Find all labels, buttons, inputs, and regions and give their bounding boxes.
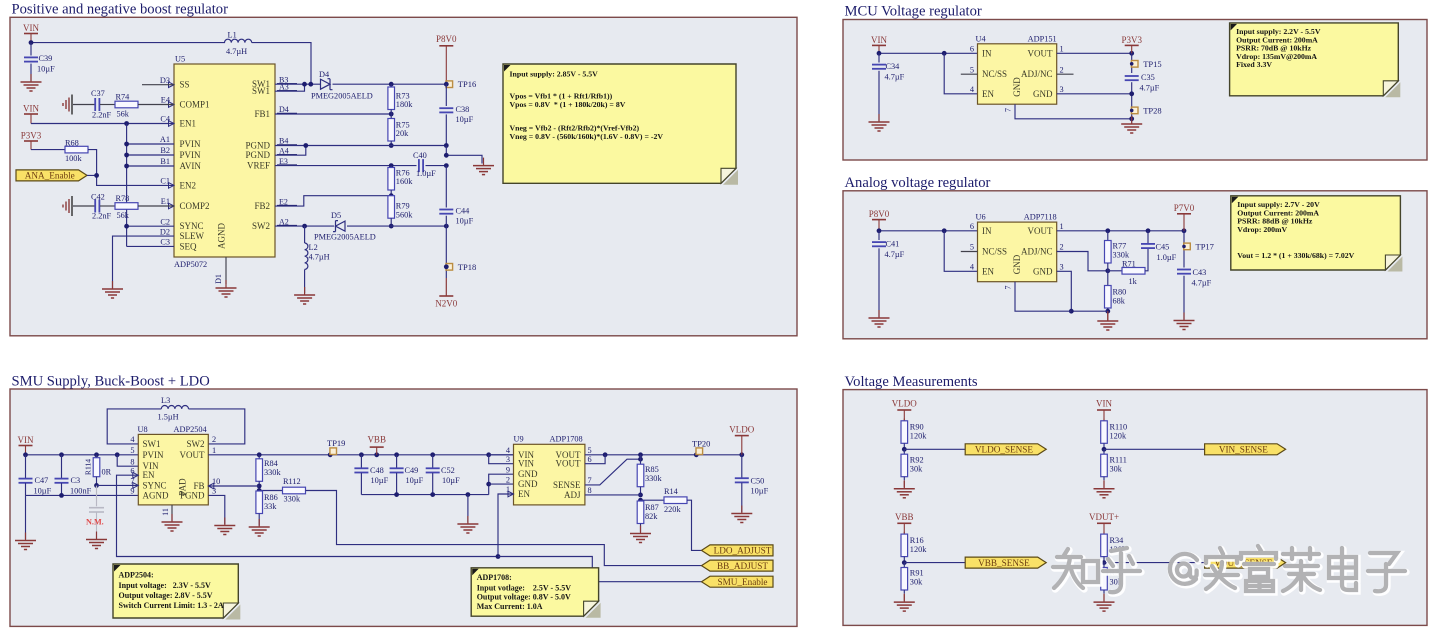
- svg-text:R92: R92: [910, 455, 924, 464]
- net port VBB_SENSE: [965, 557, 1046, 568]
- power port VIN (top-left): [24, 33, 38, 35]
- junction: [444, 163, 449, 168]
- svg-text:R74: R74: [116, 93, 131, 102]
- junction: [29, 40, 34, 45]
- test point TP16: [446, 81, 453, 88]
- wire FB2 E2: [275, 196, 391, 206]
- svg-text:Vpos = 0.8V * (1 + 180k/20k): Vpos = 0.8V * (1 + 180k/20k) = 8V: [510, 100, 626, 109]
- svg-text:10µF: 10µF: [442, 476, 460, 485]
- svg-text:C41: C41: [886, 240, 900, 249]
- ground (R91): [903, 594, 905, 602]
- svg-text:Positive and negative boost re: Positive and negative boost regulator: [12, 2, 229, 18]
- junction: [389, 163, 394, 168]
- wire PGND A4 riser: [275, 146, 306, 156]
- svg-text:VIN: VIN: [23, 23, 39, 33]
- pin AGND D1: [225, 257, 227, 284]
- svg-text:120k: 120k: [910, 432, 927, 441]
- svg-text:33k: 33k: [264, 502, 277, 511]
- svg-text:Max Current: 1.0A: Max Current: 1.0A: [477, 602, 543, 611]
- wire bus to AVIN B1: [127, 165, 174, 167]
- svg-text:330k: 330k: [284, 495, 301, 504]
- pin stub NC/SS (U6): [961, 251, 978, 253]
- svg-text:R87: R87: [645, 503, 659, 512]
- svg-text:NC/SS: NC/SS: [982, 247, 1007, 257]
- svg-text:Analog voltage regulator: Analog voltage regulator: [845, 175, 991, 191]
- watermark: Zhihu @Anfulai Electronics: [1053, 546, 1406, 593]
- svg-text:ADJ/NC: ADJ/NC: [1021, 247, 1053, 257]
- inductor L1 4.7uH: [225, 39, 252, 42]
- svg-text:30k: 30k: [910, 578, 923, 587]
- svg-text:4.7µH: 4.7µH: [226, 47, 247, 56]
- capacitor C42 2.2nF: [94, 200, 96, 213]
- IC U4 ADP151: [978, 44, 1057, 104]
- svg-text:U9: U9: [514, 435, 524, 444]
- ground (PAD): [171, 514, 173, 522]
- wire SYNC from R114: [97, 484, 139, 486]
- svg-text:SW1: SW1: [143, 439, 161, 449]
- wire R75 to PGND rail: [390, 141, 392, 146]
- ground (sideways, COMP1 RC): [63, 98, 69, 112]
- junction: [374, 452, 379, 457]
- capacitor C52 10uF: [432, 455, 434, 468]
- resistor R71 1k: [1108, 270, 1122, 272]
- svg-text:SMU Supply, Buck-Boost + LDO: SMU Supply, Buck-Boost + LDO: [12, 373, 210, 389]
- wire AGND rail: [26, 494, 139, 496]
- resistor R34 120k: [1103, 532, 1105, 534]
- svg-text:Vout = 1.2 * (1 + 330k/68k) =: Vout = 1.2 * (1 + 330k/68k) = 7.02V: [1237, 251, 1354, 260]
- svg-text:8: 8: [130, 457, 134, 466]
- ground (C41): [878, 310, 880, 318]
- svg-text:Input supply: 2.85V - 5.5V: Input supply: 2.85V - 5.5V: [510, 70, 599, 79]
- svg-text:56k: 56k: [117, 211, 130, 220]
- svg-text:TP17: TP17: [1196, 241, 1214, 251]
- note: boost regulator formulas: [723, 170, 738, 185]
- wire bus to SYNC C2: [127, 225, 174, 227]
- resistor R78 56k: [115, 203, 138, 210]
- junction: [444, 153, 449, 158]
- svg-text:U8: U8: [138, 425, 148, 434]
- junction: [902, 560, 907, 565]
- svg-text:1.5µH: 1.5µH: [158, 413, 179, 422]
- svg-text:R112: R112: [283, 477, 301, 486]
- svg-text:7: 7: [588, 476, 592, 485]
- net port SMU_Enable: [702, 576, 774, 587]
- junction: [902, 447, 907, 452]
- ground (MCU output): [1131, 116, 1133, 124]
- pin stub ADJ/NC: [1057, 73, 1074, 75]
- svg-text:ANA_Enable: ANA_Enable: [25, 171, 75, 181]
- junction: [389, 112, 394, 117]
- svg-text:R85: R85: [645, 465, 659, 474]
- resistor R68 100k: [65, 146, 88, 153]
- svg-text:ADP151: ADP151: [1028, 34, 1057, 43]
- svg-text:82k: 82k: [645, 512, 658, 521]
- junction: [389, 193, 394, 198]
- junction: [124, 164, 129, 169]
- svg-text:10µF: 10µF: [34, 487, 52, 496]
- wire GND3 to rail: [1057, 93, 1132, 95]
- junction: [444, 224, 449, 229]
- svg-text:SW1: SW1: [252, 86, 270, 96]
- wire GND pin2 branch: [489, 483, 514, 485]
- wire VIN to EN1 and PVIN bus: [31, 123, 174, 125]
- svg-text:SYNC: SYNC: [143, 480, 167, 490]
- svg-text:R80: R80: [1113, 288, 1127, 297]
- junction: [942, 51, 947, 56]
- svg-text:P7V0: P7V0: [1174, 203, 1195, 213]
- svg-text:R90: R90: [910, 423, 924, 432]
- svg-text:C38: C38: [456, 105, 470, 114]
- wire R68 to ANA_Enable node: [88, 150, 97, 176]
- pin stub NC/SS: [961, 73, 978, 75]
- svg-text:D4: D4: [319, 70, 330, 79]
- power port VLDO: [897, 409, 911, 411]
- svg-text:L2: L2: [309, 243, 318, 252]
- ground (U5 AGND): [225, 280, 227, 288]
- junction: [257, 452, 262, 457]
- note: ADP7118 specs: [1387, 257, 1402, 272]
- svg-text:VLDO: VLDO: [729, 425, 754, 435]
- junction: [1129, 91, 1134, 96]
- wire VOUT rail (VBB): [208, 454, 513, 456]
- net port VDUT_SENSE: [1205, 557, 1286, 568]
- junction: [1130, 62, 1134, 66]
- svg-text:SMU_Enable: SMU_Enable: [717, 577, 767, 587]
- wire bus vertical: [126, 124, 128, 247]
- ground (N.M. cap): [96, 532, 98, 540]
- svg-text:330k: 330k: [645, 474, 662, 483]
- svg-text:20k: 20k: [396, 129, 409, 138]
- svg-text:100k: 100k: [65, 154, 82, 163]
- wire C42 to R78: [100, 205, 115, 207]
- svg-text:C49: C49: [405, 466, 419, 475]
- junction: [1182, 245, 1186, 249]
- svg-text:C40: C40: [413, 151, 427, 160]
- IC U5 ADP5072: [174, 64, 275, 257]
- svg-text:VBB: VBB: [367, 435, 386, 445]
- wire to VLDO_SENSE: [904, 448, 965, 450]
- wire bus to SEQ C3: [127, 245, 174, 247]
- svg-text:5: 5: [970, 243, 974, 252]
- junction: [430, 492, 435, 497]
- junction: [942, 228, 947, 233]
- wire R76 to FB2 node: [390, 190, 392, 196]
- svg-text:AGND: AGND: [143, 490, 169, 500]
- ground (R87): [640, 526, 642, 534]
- junction: [1069, 309, 1074, 314]
- capacitor C38 10uF: [445, 84, 447, 106]
- ground (R92): [903, 481, 905, 489]
- svg-text:100nF: 100nF: [70, 487, 92, 496]
- resistor R74 56k: [115, 101, 138, 108]
- svg-text:PGND: PGND: [245, 150, 270, 160]
- svg-text:4.7µF: 4.7µF: [1192, 279, 1212, 288]
- junction: [1182, 228, 1187, 233]
- svg-text:SW2: SW2: [252, 221, 270, 231]
- svg-text:VIN: VIN: [23, 104, 39, 114]
- svg-text:R91: R91: [910, 569, 924, 578]
- svg-text:10µF: 10µF: [406, 476, 424, 485]
- junction: [694, 452, 699, 457]
- svg-text:Output voltage: 0.8V - 5.0V: Output voltage: 0.8V - 5.0V: [477, 593, 571, 602]
- svg-text:PMEG2005AELD: PMEG2005AELD: [314, 233, 376, 242]
- svg-text:2: 2: [1060, 243, 1064, 252]
- wire EN(U8) to SMU_Enable net: [117, 475, 499, 556]
- wire VOUT rail to P7V0: [1057, 230, 1184, 232]
- svg-text:SYNC: SYNC: [180, 221, 204, 231]
- capacitor C41 4.7uF: [878, 231, 880, 240]
- svg-text:U5: U5: [175, 55, 185, 64]
- svg-text:A1: A1: [160, 135, 170, 144]
- svg-text:SENSE: SENSE: [553, 480, 581, 490]
- svg-text:ADP7118: ADP7118: [1024, 213, 1057, 222]
- capacitor C48 10uF: [360, 455, 362, 468]
- svg-text:3: 3: [1060, 263, 1064, 272]
- power port VBB: [897, 522, 911, 524]
- net port BB_ADJUST: [702, 560, 774, 571]
- wire ADJ pin: [585, 494, 641, 496]
- svg-text:R71: R71: [1122, 260, 1136, 269]
- junction: [124, 153, 129, 158]
- power port VIN (SMU): [19, 445, 33, 447]
- resistor R87 82k: [640, 499, 642, 502]
- svg-text:D1: D1: [214, 274, 223, 284]
- junction: [444, 264, 449, 269]
- svg-text:1: 1: [1060, 45, 1064, 54]
- wire PGND to ground: [208, 495, 225, 524]
- wire SLEW to ground: [113, 236, 175, 288]
- svg-text:180k: 180k: [396, 100, 413, 109]
- resistor R84 330k: [258, 455, 260, 459]
- svg-text:GND: GND: [1033, 89, 1053, 99]
- junction: [877, 51, 882, 56]
- wire VIN to L1: [31, 42, 225, 44]
- note: ADP151 specs: [1385, 82, 1400, 97]
- svg-text:PAD: PAD: [178, 478, 188, 496]
- wire earth to C37: [73, 104, 95, 106]
- svg-text:VOUT: VOUT: [180, 450, 205, 460]
- inductor L2 4.7uH: [304, 226, 306, 243]
- ground (U6 divider): [1107, 311, 1109, 321]
- svg-text:U4: U4: [976, 34, 987, 43]
- resistor R75 20k: [388, 119, 395, 142]
- svg-text:2.2nF: 2.2nF: [92, 212, 112, 221]
- svg-text:L1: L1: [228, 31, 237, 40]
- svg-text:30k: 30k: [910, 464, 923, 473]
- svg-text:GND: GND: [518, 479, 538, 489]
- junction: [394, 492, 399, 497]
- svg-text:VBB_SENSE: VBB_SENSE: [978, 558, 1030, 568]
- junction: [444, 143, 449, 148]
- junction: [638, 457, 643, 462]
- wire C47 to ground: [25, 495, 27, 539]
- wire VIN pins U9: [489, 454, 514, 456]
- svg-text:PVIN: PVIN: [180, 150, 202, 160]
- power port P8V0: [439, 45, 453, 47]
- power port VIN: [1097, 409, 1111, 411]
- svg-text:EN1: EN1: [180, 119, 197, 129]
- wire EN branch (U6): [944, 231, 977, 271]
- IC U9 ADP1708: [514, 444, 585, 505]
- svg-text:120k: 120k: [910, 545, 927, 554]
- svg-text:10µF: 10µF: [456, 115, 474, 124]
- svg-text:R114: R114: [84, 459, 93, 475]
- power port N2V0 (negative rail): [439, 295, 453, 297]
- svg-text:1: 1: [1060, 222, 1064, 231]
- wire VIN pin3 branch: [489, 455, 514, 464]
- svg-text:Input voltage: 2.3V - 5.5V: Input voltage: 2.3V - 5.5V: [119, 581, 212, 590]
- junction: [638, 498, 643, 503]
- wire R74 to COMP1: [138, 104, 174, 106]
- junction: [124, 142, 129, 147]
- svg-text:10µF: 10µF: [751, 487, 769, 496]
- wire GND7 bottom pin (U6): [1015, 282, 1071, 312]
- wire D4 to P8V0 node: [333, 83, 447, 85]
- wire C40 to node: [426, 165, 447, 167]
- junction: [496, 554, 501, 559]
- wire PGND to earth ground: [446, 146, 482, 164]
- svg-text:SW2: SW2: [187, 439, 205, 449]
- svg-text:COMP2: COMP2: [180, 201, 210, 211]
- IC U6 ADP7118: [978, 222, 1057, 282]
- junction: [359, 452, 364, 457]
- svg-text:VIN_SENSE: VIN_SENSE: [1219, 445, 1268, 455]
- junction: [739, 452, 744, 457]
- svg-text:Input votlage: 2.5V - 5.5V: Input votlage: 2.5V - 5.5V: [477, 583, 572, 592]
- ground (C50): [741, 506, 743, 514]
- svg-text:9: 9: [506, 465, 510, 474]
- pin stub SS/D3: [142, 84, 174, 86]
- wire VIN pin 8 branch: [117, 455, 138, 466]
- svg-text:3: 3: [506, 455, 510, 464]
- svg-text:MCU Voltage regulator: MCU Voltage regulator: [845, 4, 982, 20]
- svg-text:FB1: FB1: [254, 109, 270, 119]
- junction: [94, 483, 99, 488]
- resistor R76 160k: [390, 166, 392, 168]
- junction: [1105, 228, 1110, 233]
- svg-text:EN: EN: [982, 266, 994, 276]
- junction: [59, 493, 64, 498]
- wire GND7 bottom pin: [1015, 104, 1132, 119]
- ground (C43): [1183, 313, 1185, 321]
- wire VOUT to P3V3: [1057, 52, 1132, 54]
- wire P7V0 vertical: [1183, 231, 1185, 268]
- svg-text:PVIN: PVIN: [143, 450, 165, 460]
- resistor R111 30k: [1103, 449, 1105, 454]
- resistor R14 220k: [641, 499, 665, 501]
- svg-text:N2V0: N2V0: [435, 299, 457, 309]
- svg-text:TP15: TP15: [1143, 59, 1161, 69]
- panel: Voltage Measurements: [843, 390, 1427, 626]
- wire rail to ground: [467, 495, 469, 523]
- svg-text:10µF: 10µF: [37, 65, 55, 74]
- resistor R91 30k: [903, 563, 905, 568]
- svg-text:11: 11: [161, 508, 170, 516]
- test point TP20: [696, 448, 703, 455]
- svg-text:PGND: PGND: [245, 141, 270, 151]
- wire EN branch: [944, 53, 977, 94]
- wire R79 to SW2 rail: [390, 218, 392, 226]
- ground (C34): [878, 114, 880, 122]
- wire to VDUT_SENSE: [1104, 562, 1205, 564]
- svg-text:3: 3: [1060, 85, 1064, 94]
- svg-text:EN2: EN2: [180, 180, 197, 190]
- wire FB1: [275, 113, 391, 115]
- svg-text:Vneg = 0.8V - (560k/160k)*(1.6: Vneg = 0.8V - (560k/160k)*(1.6V - 0.8V) …: [510, 132, 664, 141]
- power port VIN (second): [24, 113, 38, 115]
- svg-text:SS: SS: [180, 80, 190, 90]
- svg-text:R78: R78: [116, 194, 130, 203]
- junction: [59, 452, 64, 457]
- wire PGND B4 rail: [275, 145, 446, 147]
- capacitor C39 10uF: [30, 43, 32, 56]
- resistor R85 330k: [637, 464, 644, 487]
- svg-text:2: 2: [1060, 65, 1064, 74]
- junction: [389, 82, 394, 87]
- wire SMU_Enable to port: [498, 557, 702, 582]
- svg-text:C3: C3: [71, 476, 81, 485]
- svg-text:D2: D2: [160, 227, 170, 236]
- svg-text:VIN: VIN: [18, 435, 34, 445]
- svg-text:R34: R34: [1110, 536, 1125, 545]
- svg-text:8: 8: [588, 486, 592, 495]
- svg-text:R14: R14: [664, 487, 679, 496]
- svg-text:FB2: FB2: [254, 201, 270, 211]
- capacitor C37 2.2nF: [94, 98, 96, 111]
- panel: Analog voltage regulator: [843, 191, 1427, 339]
- svg-text:GND: GND: [1033, 266, 1053, 276]
- junction: [257, 488, 262, 493]
- wire GND3 (U6): [1057, 271, 1108, 311]
- ground (R111): [1103, 481, 1105, 489]
- svg-text:ADJ/NC: ADJ/NC: [1021, 69, 1053, 79]
- capacitor C45 1.0uF: [1147, 231, 1149, 244]
- net port VIN_SENSE: [1205, 444, 1286, 455]
- wire EN(U9) from SMU net: [498, 494, 514, 557]
- svg-text:BB_ADJUST: BB_ADJUST: [717, 561, 768, 571]
- svg-text:R110: R110: [1110, 423, 1128, 432]
- wire earth to C42: [73, 205, 95, 207]
- net port VLDO_SENSE: [965, 444, 1046, 455]
- svg-text:B2: B2: [160, 146, 170, 155]
- junction: [308, 82, 313, 87]
- svg-text:R16: R16: [910, 536, 924, 545]
- svg-text:IN: IN: [982, 48, 992, 58]
- svg-text:120k: 120k: [1110, 432, 1127, 441]
- wire FB pin: [208, 485, 259, 487]
- junction: [466, 492, 471, 497]
- note: ADP1708 specs: [586, 603, 601, 618]
- svg-text:330k: 330k: [264, 468, 281, 477]
- svg-text:2.2nF: 2.2nF: [92, 111, 112, 120]
- svg-text:VLDO: VLDO: [892, 399, 917, 409]
- svg-text:10µF: 10µF: [456, 217, 474, 226]
- svg-text:1.0µF: 1.0µF: [1157, 253, 1177, 262]
- svg-text:C3: C3: [160, 238, 170, 247]
- wire VIN input rail: [26, 454, 139, 456]
- svg-text:R79: R79: [396, 202, 410, 211]
- wire SW1 B3 to diode D4: [275, 83, 321, 85]
- wire R71 to C45: [1145, 248, 1148, 271]
- wire VOUT rail (VLDO): [585, 454, 742, 456]
- wire P3V3 to R68: [31, 149, 65, 151]
- wire L1 to SW1: [252, 43, 311, 85]
- svg-text:IN: IN: [982, 226, 992, 236]
- svg-text:5: 5: [130, 446, 134, 455]
- svg-text:56k: 56k: [117, 110, 130, 119]
- svg-text:6: 6: [588, 455, 592, 464]
- resistor R86 33k: [258, 490, 260, 493]
